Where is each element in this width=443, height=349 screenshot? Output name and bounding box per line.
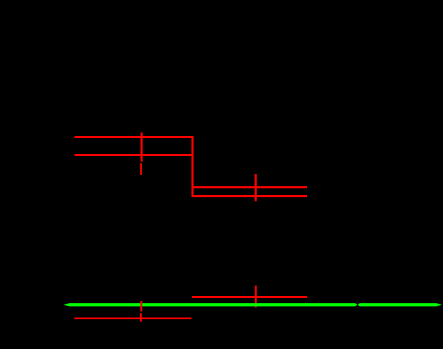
data point bin1 horizontal bar (bin width) bbox=[75, 154, 193, 156]
ratio bin2 vertical error bar bbox=[255, 286, 257, 308]
ratio panel: green reference line left segment (tapered ends) bbox=[64, 303, 358, 306]
ratio bin2 horizontal bar bbox=[192, 296, 307, 298]
histogram H1 (model/fit) red step line: bin1 bbox=[75, 137, 308, 196]
ratio bin1 horizontal bar bbox=[74, 317, 191, 319]
data point bin2 vertical error bar bbox=[255, 174, 257, 201]
data point bin1 vertical error bar lower segment bbox=[140, 163, 142, 175]
data point bin1 vertical error bar upper segment bbox=[141, 133, 143, 162]
ratio bin1 vertical error bar lower segment bbox=[140, 313, 142, 321]
ratio bin1 vertical error bar upper segment bbox=[140, 301, 142, 312]
data point bin2 horizontal bar (bin width) bbox=[193, 186, 308, 188]
ratio panel: green reference line right segment (tapered ends) bbox=[358, 303, 442, 306]
